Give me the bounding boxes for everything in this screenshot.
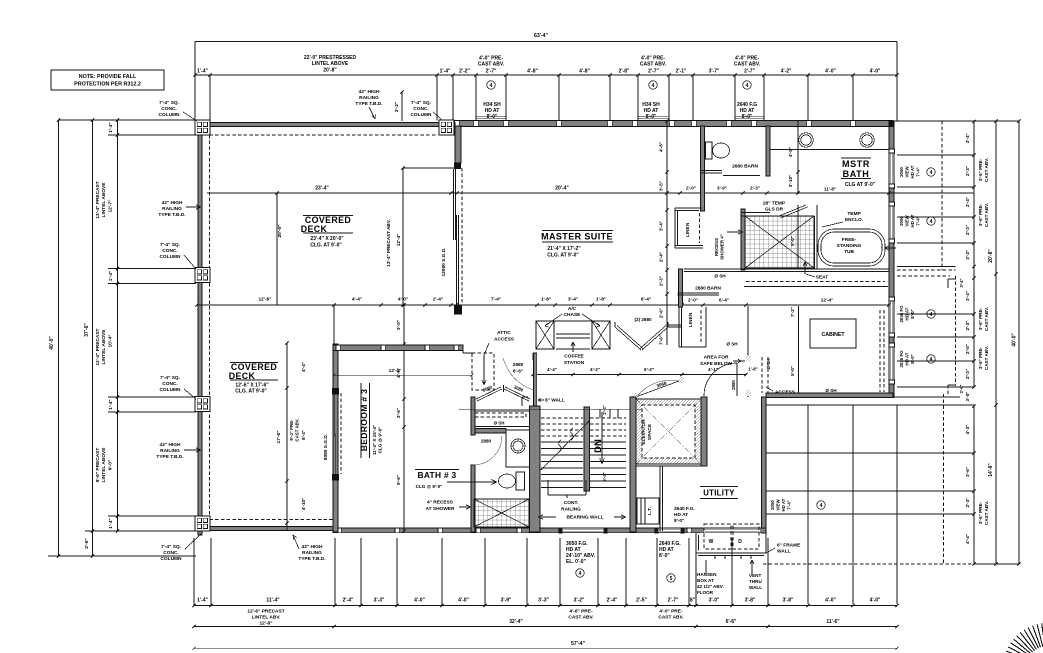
svg-text:CHASE: CHASE	[564, 312, 582, 318]
svg-text:BATH # 3: BATH # 3	[417, 470, 456, 480]
svg-text:4'-8": 4'-8"	[788, 147, 793, 157]
dim line: bedroom3 vertical x404	[403, 305, 405, 531]
svg-text:SEAT: SEAT	[816, 275, 829, 281]
svg-text:40'-0": 40'-0"	[1012, 333, 1018, 347]
svg-text:CAST ABV.: CAST ABV.	[295, 418, 300, 441]
svg-text:4: 4	[930, 219, 933, 225]
svg-text:20'-8": 20'-8"	[323, 68, 337, 74]
svg-text:2'-0": 2'-0"	[688, 298, 698, 303]
laundry bump-out wall	[695, 533, 697, 553]
svg-text:3'-0": 3'-0"	[396, 320, 401, 330]
svg-text:CAST ABV.: CAST ABV.	[984, 307, 989, 331]
door: double (2)2680 wardrobe	[614, 322, 616, 327]
svg-text:4'-4": 4'-4"	[352, 297, 362, 303]
porch: horizontal lines	[766, 404, 974, 406]
svg-text:CLG @ 9'-0": CLG @ 9'-0"	[416, 484, 443, 489]
svg-text:D: D	[738, 539, 742, 545]
svg-text:BEARING WALL: BEARING WALL	[566, 515, 603, 521]
svg-text:2880: 2880	[481, 439, 492, 444]
svg-text:CLG. AT 9'-0": CLG. AT 9'-0"	[235, 389, 267, 395]
svg-text:11'-4" PRECAST: 11'-4" PRECAST	[95, 328, 101, 365]
svg-text:Ø SH: Ø SH	[714, 274, 726, 279]
svg-text:2'-3": 2'-3"	[965, 225, 970, 235]
svg-text:TUB: TUB	[844, 249, 854, 255]
svg-text:Ø SH: Ø SH	[766, 359, 771, 370]
closet corridor: rod dashed	[746, 281, 885, 283]
svg-text:4'-2": 4'-2"	[781, 69, 792, 75]
keynote circle porch	[817, 501, 825, 509]
svg-text:ATTIC: ATTIC	[497, 330, 511, 336]
shower master: enclosure walls	[741, 209, 745, 270]
svg-text:3'-0": 3'-0"	[709, 598, 720, 604]
shower bench line	[684, 268, 889, 270]
dryer dashed box	[733, 524, 759, 549]
svg-text:3'-2": 3'-2"	[394, 102, 400, 112]
cabinet box	[810, 319, 856, 348]
wall: corridor line y408	[459, 408, 660, 410]
svg-text:RAILING: RAILING	[359, 95, 379, 101]
svg-text:L.T.: L.T.	[647, 507, 653, 515]
wall: closet jamb to stair	[534, 353, 537, 406]
door: 2880 bedroom3 entry	[503, 358, 534, 390]
svg-text:13'-4" PRECAST: 13'-4" PRECAST	[95, 181, 101, 218]
svg-text:BOX AT: BOX AT	[697, 578, 714, 583]
svg-text:CLG AT 9'-0": CLG AT 9'-0"	[845, 182, 876, 188]
svg-text:CAST ABV.: CAST ABV.	[640, 62, 667, 68]
dim line: left 37'-6"	[92, 120, 94, 531]
dim line: long horizontal y193	[207, 192, 974, 194]
wc: south wall and barn door	[700, 170, 722, 172]
svg-text:3'-7": 3'-7"	[709, 69, 720, 75]
svg-text:HD AT: HD AT	[781, 498, 786, 511]
svg-text:8'-0": 8'-0"	[910, 309, 915, 318]
dim line: right overall 40'-0"	[1018, 121, 1020, 564]
stair: winder verticals	[599, 409, 601, 418]
door 3068 jamb hatches	[633, 393, 638, 399]
svg-text:CONT.: CONT.	[564, 500, 578, 506]
svg-text:8'-0": 8'-0"	[487, 114, 498, 120]
svg-text:2'-3": 2'-3"	[659, 276, 664, 286]
dim line: bottom overall 57'-4"	[194, 647, 897, 649]
svg-text:3'-9": 3'-9"	[501, 598, 512, 604]
svg-text:ENCLO.: ENCLO.	[845, 217, 863, 223]
svg-text:2'-3": 2'-3"	[750, 186, 760, 191]
svg-text:BATH: BATH	[843, 169, 870, 179]
laundry chute: l.t. box	[637, 498, 659, 524]
svg-text:3'-0": 3'-0"	[965, 392, 970, 402]
column C3 deck left	[195, 268, 210, 283]
svg-text:2050: 2050	[770, 500, 775, 510]
dim line: bath vertical x798	[797, 121, 799, 194]
svg-text:4: 4	[930, 312, 933, 318]
svg-text:RECESS: RECESS	[714, 238, 719, 256]
svg-text:3'-6" PRE-: 3'-6" PRE-	[978, 346, 983, 369]
linen upper: walls	[675, 207, 702, 209]
svg-text:HD AT: HD AT	[910, 214, 915, 227]
railing: deck left	[198, 120, 202, 535]
svg-text:EL. 0'-0": EL. 0'-0"	[566, 559, 587, 565]
dim line: left segments	[117, 120, 119, 531]
wall segment east of wardrobe	[668, 324, 682, 326]
svg-text:4'-4": 4'-4"	[965, 534, 970, 544]
svg-text:6'-4": 6'-4"	[641, 297, 651, 303]
svg-text:7'-4" SQ.: 7'-4" SQ.	[160, 242, 180, 248]
svg-text:4'-0": 4'-0"	[458, 598, 469, 604]
extension lines bottom	[193, 538, 195, 606]
svg-text:2'-7": 2'-7"	[668, 598, 679, 604]
step marks right	[948, 278, 956, 280]
svg-text:W: W	[709, 539, 714, 545]
tub: freestanding	[818, 229, 885, 266]
svg-text:4: 4	[746, 83, 749, 89]
column C5 deck bottom-left	[195, 516, 210, 531]
svg-text:12'-6" PRECAST: 12'-6" PRECAST	[247, 609, 284, 615]
svg-text:CAST ABV.: CAST ABV.	[658, 615, 683, 621]
svg-text:VIEW: VIEW	[776, 499, 781, 511]
svg-text:WALL: WALL	[749, 585, 762, 590]
window heads above top wall	[476, 115, 506, 117]
svg-text:1'-8": 1'-8"	[748, 367, 757, 372]
svg-text:2680 BARN: 2680 BARN	[732, 164, 758, 170]
door: bath3	[473, 436, 502, 465]
extension line x334	[333, 305, 335, 344]
svg-text:9'-0": 9'-0"	[108, 460, 114, 470]
svg-text:TYPE T.B.D.: TYPE T.B.D.	[355, 101, 382, 107]
svg-text:DECK: DECK	[301, 224, 328, 234]
svg-text:7'-4" SQ.: 7'-4" SQ.	[411, 100, 431, 106]
svg-text:4" RECESS: 4" RECESS	[427, 500, 454, 506]
bath3 toilet	[499, 474, 516, 488]
wc: left wall	[701, 126, 705, 211]
vanity: sink 2	[860, 133, 874, 147]
svg-text:8'-0": 8'-0"	[674, 518, 684, 524]
closet dashes east	[883, 310, 885, 392]
stair: dn arrow	[601, 412, 603, 464]
svg-text:7'-4": 7'-4"	[916, 216, 921, 225]
svg-text:DECK: DECK	[229, 371, 256, 381]
svg-text:STATION: STATION	[564, 360, 585, 366]
svg-text:4'-3": 4'-3"	[965, 425, 970, 435]
svg-text:42" HIGH: 42" HIGH	[359, 89, 380, 95]
svg-text:CONC.: CONC.	[163, 550, 178, 556]
svg-text:2'-0": 2'-0"	[965, 344, 970, 354]
svg-text:3'-9": 3'-9"	[717, 186, 727, 191]
closet front wall line	[744, 286, 888, 288]
elevator: cross diagonals	[636, 399, 701, 464]
svg-text:37'-6": 37'-6"	[84, 323, 90, 337]
svg-text:CAST ABV.: CAST ABV.	[478, 62, 505, 68]
svg-text:12'-8": 12'-8"	[259, 621, 272, 627]
svg-text:1'-4": 1'-4"	[440, 69, 451, 75]
svg-text:COLUMN: COLUMN	[159, 254, 181, 260]
svg-text:HD AT: HD AT	[674, 512, 688, 518]
svg-text:CAST ABV.: CAST ABV.	[984, 203, 989, 227]
svg-text:LINTEL ABOVE: LINTEL ABOVE	[101, 182, 107, 218]
note box: fall protection	[51, 70, 164, 90]
svg-text:1'-4": 1'-4"	[108, 399, 114, 409]
svg-text:3'-4": 3'-4"	[659, 221, 664, 231]
wall: bedroom3 west with 8080 sgd window	[333, 344, 338, 532]
attic access dashed	[472, 353, 494, 390]
svg-text:20'-4": 20'-4"	[555, 186, 569, 192]
svg-text:3'-8": 3'-8"	[783, 598, 794, 604]
svg-text:3'-2": 3'-2"	[574, 598, 585, 604]
svg-text:Ø SH: Ø SH	[494, 421, 505, 426]
svg-text:4'-8": 4'-8"	[579, 69, 590, 75]
svg-text:CONC.: CONC.	[162, 248, 177, 254]
svg-text:HD AT: HD AT	[910, 165, 915, 178]
svg-text:LINTEL ABOVE: LINTEL ABOVE	[101, 447, 107, 483]
svg-text:20'-8": 20'-8"	[988, 249, 994, 263]
washer dashed box	[704, 524, 731, 549]
svg-text:ACCESS: ACCESS	[775, 390, 796, 396]
wall stub east of linen	[679, 269, 683, 307]
svg-text:3'-10": 3'-10"	[788, 175, 793, 187]
svg-text:8'-0": 8'-0"	[659, 553, 670, 559]
svg-text:3'-3": 3'-3"	[374, 598, 385, 604]
svg-text:3'-3": 3'-3"	[538, 598, 549, 604]
svg-text:SHOWER 4": SHOWER 4"	[720, 234, 725, 260]
wall: master suite west with 12080 sgd window	[455, 126, 461, 163]
svg-text:9'-6": 9'-6"	[396, 475, 401, 485]
ac chase: left flue	[536, 321, 554, 349]
svg-text:6'-3": 6'-3"	[644, 367, 654, 372]
svg-text:9'-4" PRE-: 9'-4" PRE-	[289, 419, 294, 441]
svg-text:THRU: THRU	[749, 579, 762, 584]
svg-text:2'-3": 2'-3"	[965, 321, 970, 331]
svg-text:4'-0": 4'-0"	[414, 598, 425, 604]
svg-text:2'-5": 2'-5"	[636, 598, 647, 604]
svg-text:TYPE T.B.D.: TYPE T.B.D.	[298, 556, 325, 562]
dim line: corridor y374	[334, 374, 472, 376]
svg-text:42" HIGH: 42" HIGH	[160, 442, 181, 448]
column C1 top-left of deck	[195, 120, 210, 135]
svg-text:4'-0" PRE-: 4'-0" PRE-	[659, 609, 683, 615]
svg-text:RAILING: RAILING	[561, 507, 581, 513]
svg-text:2'-0": 2'-0"	[686, 186, 696, 191]
bath3 vanity	[506, 430, 530, 467]
svg-text:MSTR: MSTR	[842, 159, 870, 169]
svg-text:12'-4": 12'-4"	[821, 298, 833, 303]
svg-text:NOTE: PROVIDE FALL: NOTE: PROVIDE FALL	[79, 74, 137, 80]
dim line: right 20'-8" / 14'-6"	[995, 121, 997, 564]
tub arrow	[885, 247, 896, 249]
svg-text:TYPE T.B.D.: TYPE T.B.D.	[156, 454, 183, 460]
extension lines left	[108, 119, 196, 121]
svg-text:2'-4": 2'-4"	[433, 297, 443, 303]
extension lines top	[194, 75, 196, 121]
svg-text:8'-0": 8'-0"	[910, 354, 915, 363]
svg-text:5'-4": 5'-4"	[602, 472, 607, 481]
svg-text:7'-4": 7'-4"	[916, 167, 921, 176]
door 2880 to cabinet room	[736, 363, 738, 396]
svg-text:3'-6" PRE-: 3'-6" PRE-	[978, 501, 983, 524]
svg-text:8'-4": 8'-4"	[301, 430, 306, 440]
svg-text:HD AT: HD AT	[905, 352, 910, 365]
svg-text:CAST ABV.: CAST ABV.	[984, 501, 989, 525]
svg-text:2'-6": 2'-6"	[396, 408, 401, 418]
svg-text:LINTEL ABV.: LINTEL ABV.	[252, 615, 281, 621]
svg-text:2'-2": 2'-2"	[459, 69, 470, 75]
vanity: sink 1	[799, 133, 813, 147]
svg-text:8" WALL: 8" WALL	[545, 398, 565, 404]
svg-text:4: 4	[652, 83, 655, 89]
svg-text:28" TEMP: 28" TEMP	[763, 201, 786, 207]
svg-text:42" HIGH: 42" HIGH	[302, 544, 323, 550]
wall: top exterior with windows	[455, 121, 893, 127]
railing: deck bottom	[196, 527, 333, 531]
wall: bath3 west	[471, 397, 475, 435]
wall: utility east	[762, 397, 767, 533]
dim line: deck x403 window dim	[402, 168, 404, 305]
svg-text:11'-8": 11'-8"	[824, 187, 836, 192]
svg-text:4'-4": 4'-4"	[547, 367, 557, 372]
svg-text:12'-4": 12'-4"	[396, 234, 401, 246]
stair: treads	[541, 441, 583, 443]
svg-text:TYPE T.B.D.: TYPE T.B.D.	[158, 212, 185, 218]
svg-text:12080 S.G.D.: 12080 S.G.D.	[441, 247, 447, 276]
wc: right wall	[766, 126, 770, 176]
svg-text:CLG. AT 9'-0": CLG. AT 9'-0"	[547, 253, 579, 259]
svg-text:4'-8": 4'-8"	[659, 142, 664, 152]
svg-text:2880 BARN: 2880 BARN	[695, 286, 721, 292]
svg-text:HANSEN: HANSEN	[697, 572, 717, 577]
svg-text:VIEW: VIEW	[905, 166, 910, 178]
dim line: master east vertical x667	[666, 121, 668, 345]
porch: dashed edges	[943, 394, 945, 564]
svg-text:8'-0": 8'-0"	[742, 114, 753, 120]
svg-text:5'-0": 5'-0"	[790, 366, 795, 376]
svg-text:Ø SH: Ø SH	[726, 342, 738, 347]
wall: bearing wall bath3 east	[530, 406, 541, 532]
svg-text:3'-6" PRE-: 3'-6" PRE-	[978, 158, 983, 181]
wall: corner post top right	[889, 121, 895, 128]
svg-text:2'-6": 2'-6"	[659, 308, 664, 318]
railing: covered deck top	[196, 123, 455, 127]
svg-text:2'-4": 2'-4"	[602, 405, 607, 414]
svg-text:1'-8": 1'-8"	[541, 297, 551, 303]
svg-text:4'-0": 4'-0"	[870, 69, 881, 75]
svg-text:CABINET: CABINET	[821, 332, 845, 338]
svg-text:20'-0": 20'-0"	[277, 224, 283, 237]
wc: toilet	[706, 142, 713, 159]
cabinet room: closet wall + door jambs	[746, 355, 751, 361]
svg-text:7'-2": 7'-2"	[790, 307, 795, 317]
vanity: counter	[770, 149, 889, 151]
svg-text:17'-6": 17'-6"	[276, 430, 282, 443]
wall: east exterior with view windows	[889, 127, 894, 398]
svg-text:LINTEL ABOVE: LINTEL ABOVE	[101, 329, 107, 365]
svg-text:8'-0": 8'-0"	[646, 114, 657, 120]
svg-text:VENT: VENT	[749, 573, 761, 578]
shower bath3: tile hatch	[474, 499, 529, 527]
svg-text:4: 4	[820, 503, 823, 509]
dim line: left 40'-0"	[58, 120, 60, 556]
svg-text:13'-4" PRECAST ABV.: 13'-4" PRECAST ABV.	[386, 219, 391, 266]
svg-text:MASTER SUITE: MASTER SUITE	[541, 232, 613, 242]
svg-text:2'-4": 2'-4"	[659, 252, 664, 262]
svg-text:2050: 2050	[899, 167, 904, 177]
svg-text:LINEN: LINEN	[688, 312, 694, 327]
svg-text:3'-5": 3'-5"	[659, 181, 664, 191]
svg-text:CAST ABV.: CAST ABV.	[984, 158, 989, 182]
svg-text:32'-4": 32'-4"	[509, 619, 523, 625]
ac chase: right flue	[592, 321, 610, 349]
svg-text:2'-7": 2'-7"	[486, 69, 497, 75]
svg-text:RAILING: RAILING	[302, 550, 322, 556]
dim line: right lower segments	[973, 406, 975, 564]
svg-text:SPACE: SPACE	[647, 423, 653, 440]
deck edge dashed left	[209, 135, 211, 520]
svg-text:4'-0": 4'-0"	[870, 598, 881, 604]
svg-text:LINEN: LINEN	[685, 222, 691, 237]
svg-text:7'-4": 7'-4"	[787, 500, 792, 509]
svg-text:3'-8": 3'-8"	[745, 598, 756, 604]
svg-text:2'-3": 2'-3"	[965, 498, 970, 508]
dim line: right side segments	[973, 122, 975, 388]
svg-text:5'-0": 5'-0"	[790, 236, 795, 246]
svg-text:63'-4": 63'-4"	[534, 33, 549, 39]
elevator: inner dashed	[642, 405, 695, 458]
svg-text:6'-6": 6'-6"	[513, 369, 523, 375]
dim line: deck vertical 20'-0"	[276, 193, 278, 305]
svg-text:4'-2": 4'-2"	[590, 367, 600, 372]
svg-text:AREA FOR: AREA FOR	[704, 355, 729, 361]
shower recess arrow	[727, 231, 743, 233]
svg-text:11'-4": 11'-4"	[266, 598, 280, 604]
svg-text:7'-4" SQ.: 7'-4" SQ.	[159, 100, 179, 106]
svg-text:2'-1": 2'-1"	[676, 69, 687, 75]
svg-text:2'-4": 2'-4"	[343, 598, 354, 604]
dim line: lower deck vertical	[286, 343, 288, 530]
svg-text:2'-7": 2'-7"	[648, 69, 659, 75]
svg-text:3'-0": 3'-0"	[959, 384, 964, 393]
svg-text:4'-0": 4'-0"	[825, 598, 836, 604]
svg-text:4: 4	[930, 357, 933, 363]
svg-text:7'-6": 7'-6"	[659, 335, 664, 345]
svg-text:6'-6": 6'-6"	[726, 619, 737, 625]
svg-text:4'-1": 4'-1"	[708, 367, 718, 372]
elevator: shaft walls	[630, 397, 636, 532]
porch bottom-right: column lines	[807, 405, 809, 604]
door: double 3068 hall	[637, 381, 679, 397]
svg-text:4'-0": 4'-0"	[825, 69, 836, 75]
svg-text:CONC.: CONC.	[162, 381, 177, 387]
shower master: glass door diagonal	[779, 205, 806, 216]
svg-text:ELEVATOR: ELEVATOR	[641, 419, 647, 445]
svg-text:8080 S.G.D.: 8080 S.G.D.	[323, 434, 329, 460]
svg-text:11'-4" X 15'-4": 11'-4" X 15'-4"	[372, 425, 377, 455]
svg-text:7'-4" SQ.: 7'-4" SQ.	[160, 375, 180, 381]
wall: utility west	[659, 466, 661, 531]
svg-text:2'-6": 2'-6"	[84, 538, 90, 548]
svg-text:1'-4": 1'-4"	[108, 271, 114, 281]
extension lines right	[893, 120, 1019, 122]
svg-text:CONC.: CONC.	[161, 106, 176, 112]
svg-text:4'-8": 4'-8"	[527, 69, 538, 75]
shower master: tile hatch	[745, 216, 814, 268]
svg-text:COLUMN: COLUMN	[410, 112, 432, 118]
svg-text:2'-3": 2'-3"	[965, 369, 970, 379]
svg-text:CAST ABV.: CAST ABV.	[984, 346, 989, 370]
coffee alcove shelves	[554, 320, 592, 322]
svg-text:7'-4": 7'-4"	[491, 297, 501, 303]
svg-text:14'-6": 14'-6"	[988, 463, 994, 477]
right mid dashed porch edge	[897, 269, 956, 271]
svg-text:3'-4": 3'-4"	[568, 297, 578, 303]
svg-text:4: 4	[930, 170, 933, 176]
svg-text:(2) 2680: (2) 2680	[634, 317, 652, 322]
